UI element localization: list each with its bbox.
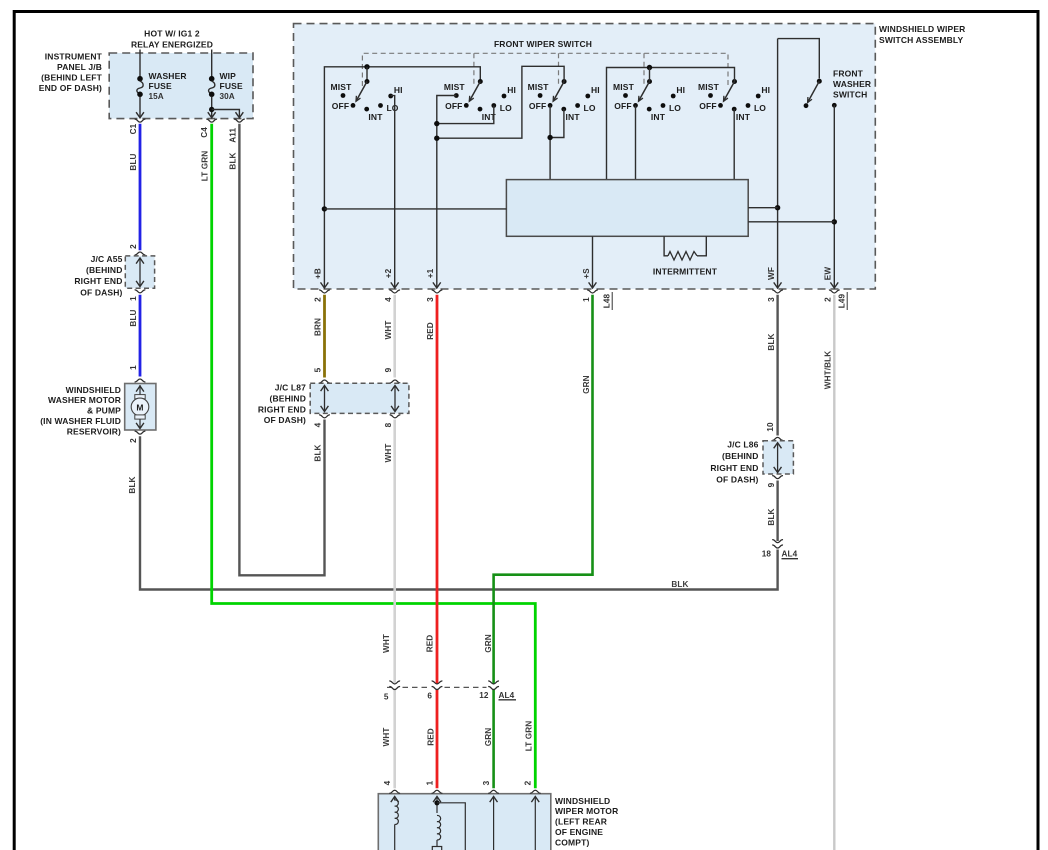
svg-text:WHT/BLK: WHT/BLK [824, 351, 833, 389]
svg-text:BLK: BLK [229, 152, 238, 169]
svg-text:+B: +B [314, 268, 323, 279]
svg-text:FUSE: FUSE [149, 81, 172, 91]
svg-text:6: 6 [427, 692, 432, 701]
svg-text:3: 3 [767, 297, 776, 302]
wire BLU A55 to washer motor [129, 295, 140, 377]
wire RED +1 to wiper motor pin 1 [426, 295, 438, 789]
svg-text:RIGHT END: RIGHT END [710, 463, 758, 473]
svg-text:INSTRUMENT: INSTRUMENT [45, 52, 103, 62]
svg-text:4: 4 [384, 297, 393, 302]
wire WHT J/C L87 pin 8 to AL4 pin 5 [382, 420, 395, 789]
wire module to common bus [324, 208, 506, 210]
wiper motor internal wire junction to brush [437, 803, 465, 850]
wiper motor pin 3 [482, 780, 499, 850]
svg-text:10: 10 [766, 422, 775, 432]
wire BLK washer motor to ground bus [128, 436, 778, 589]
svg-text:FRONT: FRONT [833, 68, 864, 78]
svg-text:8: 8 [384, 422, 393, 427]
svg-text:L49: L49 [838, 293, 847, 308]
svg-text:BLK: BLK [767, 508, 776, 525]
instrument panel J/B fuse box [39, 52, 253, 119]
svg-text:OF DASH): OF DASH) [80, 287, 122, 297]
connector A11 [229, 119, 245, 143]
label HOT W/ IG1 2 RELAY ENERGIZED [131, 29, 213, 50]
connectors below assembly with pin numbers [314, 290, 840, 302]
svg-text:RED: RED [426, 322, 435, 340]
svg-text:4: 4 [314, 422, 323, 427]
connector C1 [129, 119, 146, 134]
wiper switch common bus wire +B [321, 64, 481, 288]
svg-text:1: 1 [129, 365, 138, 370]
svg-text:+1: +1 [426, 268, 435, 278]
svg-text:BLK: BLK [314, 444, 323, 461]
svg-text:BLU: BLU [129, 153, 138, 170]
svg-text:C4: C4 [200, 127, 209, 138]
svg-text:BRN: BRN [314, 318, 323, 336]
svg-text:SWITCH ASSEMBLY: SWITCH ASSEMBLY [879, 35, 963, 45]
wire WHT +2 to J/C L87 pin 9 [384, 295, 395, 378]
svg-text:AL4: AL4 [782, 550, 798, 559]
wire switch3 OFF INT net to module [547, 105, 564, 179]
svg-text:(BEHIND: (BEHIND [722, 451, 758, 461]
svg-text:WIP: WIP [220, 71, 237, 81]
svg-text:& PUMP: & PUMP [87, 406, 121, 416]
connector AL4 pin 18 [762, 540, 798, 559]
svg-text:OF DASH): OF DASH) [264, 415, 306, 425]
svg-text:3: 3 [426, 297, 435, 302]
svg-text:5: 5 [384, 693, 389, 702]
svg-text:FRONT WIPER SWITCH: FRONT WIPER SWITCH [494, 39, 592, 49]
svg-text:HOT W/ IG1 2: HOT W/ IG1 2 [144, 29, 200, 39]
svg-text:J/C L87: J/C L87 [275, 383, 306, 393]
svg-text:PANEL J/B: PANEL J/B [57, 62, 102, 72]
svg-text:RIGHT END: RIGHT END [258, 404, 306, 414]
svg-text:RELAY ENERGIZED: RELAY ENERGIZED [131, 40, 213, 50]
svg-text:WHT: WHT [384, 444, 393, 463]
svg-text:OF ENGINE: OF ENGINE [555, 827, 603, 837]
svg-text:1: 1 [425, 780, 434, 785]
windshield wiper motor box [378, 794, 618, 850]
svg-text:30A: 30A [220, 92, 235, 101]
wire WF front washer switch to pin [774, 39, 782, 288]
svg-text:J/C A55: J/C A55 [91, 254, 123, 264]
svg-text:COMPT): COMPT) [555, 838, 589, 848]
wire switch2 net to switch3 pivot line B [434, 66, 564, 141]
svg-text:(IN WASHER FLUID: (IN WASHER FLUID [40, 416, 121, 426]
connector label L49 [838, 292, 848, 310]
front wiper switch gang 2 [444, 79, 516, 122]
wire module to EW [748, 221, 834, 223]
svg-text:WF: WF [767, 267, 776, 280]
wire BLK WF to J/C L86 pin 10 [766, 295, 778, 436]
svg-text:WINDSHIELD: WINDSHIELD [555, 796, 610, 806]
svg-text:15A: 15A [149, 92, 164, 101]
connector label L48 [603, 292, 613, 310]
wire BLU C1 to J/C A55 [129, 124, 140, 250]
wire BLK J/C L86 pin 9 to AL4 pin 18 [767, 481, 778, 542]
wire pivot stub switch 1 [366, 67, 368, 82]
wiper control module [506, 180, 748, 237]
svg-text:END OF DASH): END OF DASH) [39, 83, 102, 93]
svg-text:(BEHIND: (BEHIND [86, 265, 122, 275]
svg-text:WASHER MOTOR: WASHER MOTOR [48, 395, 121, 405]
wire module to WF [748, 207, 777, 209]
svg-text:GRN: GRN [582, 375, 591, 394]
wire LT GRN C4 to wiper motor pin 2 [201, 124, 536, 789]
wire switch4 switch5 pivot line C to module [607, 65, 735, 180]
svg-text:5: 5 [314, 367, 323, 372]
wire BLK A11 to J/C L87 pin 4 [229, 124, 325, 576]
svg-text:FUSE: FUSE [220, 81, 243, 91]
svg-text:BLK: BLK [767, 333, 776, 350]
junction connector J/C L87 [258, 380, 409, 427]
svg-text:2: 2 [314, 297, 323, 302]
svg-text:RED: RED [427, 728, 436, 746]
svg-text:BLK: BLK [128, 476, 137, 493]
connector AL4 row pins 5 6 12 [384, 681, 516, 702]
svg-text:WIPER MOTOR: WIPER MOTOR [555, 806, 618, 816]
svg-text:C1: C1 [129, 123, 138, 134]
svg-text:A11: A11 [229, 128, 238, 143]
svg-text:18: 18 [762, 550, 772, 559]
wire switch5 INT to module [733, 109, 735, 180]
front wiper switch gang dashed line [362, 39, 728, 86]
wire module to +S [592, 236, 594, 287]
svg-text:WINDSHIELD: WINDSHIELD [66, 385, 121, 395]
svg-text:2: 2 [129, 438, 138, 443]
wiper motor field coil pin 4 [395, 800, 399, 850]
washer motor M windshield washer motor and pump [40, 379, 156, 443]
wire EW washer switch contact to pin [830, 105, 838, 288]
svg-text:(BEHIND: (BEHIND [270, 393, 306, 403]
svg-text:(LEFT REAR: (LEFT REAR [555, 817, 607, 827]
svg-text:1: 1 [582, 297, 591, 302]
svg-text:WHT: WHT [382, 634, 391, 653]
wiper motor resistor [432, 847, 441, 850]
svg-text:RIGHT END: RIGHT END [74, 276, 122, 286]
svg-text:J/C L86: J/C L86 [727, 440, 758, 450]
svg-text:BLU: BLU [129, 309, 138, 326]
svg-text:3: 3 [482, 780, 491, 785]
svg-text:(BEHIND LEFT: (BEHIND LEFT [41, 73, 102, 83]
svg-text:WHT: WHT [384, 321, 393, 340]
wire switch1 HI to +2 [391, 96, 395, 287]
svg-text:WASHER: WASHER [833, 79, 871, 89]
front wiper switch gang 4 [613, 79, 685, 122]
windshield wiper switch assembly box [294, 24, 966, 289]
svg-text:WASHER: WASHER [149, 71, 187, 81]
svg-text:4: 4 [383, 780, 392, 785]
WIP fuse 30A [208, 50, 243, 118]
junction connector J/C L86 [710, 437, 793, 487]
svg-text:RED: RED [426, 635, 435, 653]
wire GRN +S to wiper motor pin 3 [484, 295, 593, 789]
wire switch4 OFF to module [635, 105, 637, 179]
intermittent resistor [653, 236, 718, 276]
junction connector J/C A55 [74, 252, 154, 301]
svg-text:2: 2 [824, 297, 833, 302]
svg-text:WHT: WHT [382, 728, 391, 747]
svg-text:EW: EW [824, 267, 833, 281]
svg-text:GRN: GRN [484, 728, 493, 747]
svg-text:OF DASH): OF DASH) [716, 475, 758, 485]
svg-text:L48: L48 [603, 293, 612, 308]
wire BRN +B to J/C L87 pin 5 [314, 295, 325, 378]
svg-text:9: 9 [384, 367, 393, 372]
svg-text:9: 9 [767, 482, 776, 487]
washer fuse 15A [136, 50, 187, 118]
svg-text:2: 2 [524, 780, 533, 785]
svg-text:M: M [136, 402, 143, 412]
svg-text:2: 2 [129, 244, 138, 249]
front washer switch [778, 39, 872, 109]
front wiper switch gang 5 [698, 79, 770, 122]
assembly pin labels [314, 267, 833, 281]
wire switch2 MIST LO net to +1 [433, 96, 494, 289]
svg-text:SWITCH: SWITCH [833, 89, 867, 99]
svg-text:INTERMITTENT: INTERMITTENT [653, 267, 718, 277]
svg-text:GRN: GRN [484, 634, 493, 653]
svg-text:+S: +S [582, 268, 591, 279]
wiper motor pin 1 [425, 780, 442, 813]
svg-text:RESERVOIR): RESERVOIR) [67, 426, 121, 436]
wiper motor pin 4 [383, 780, 400, 802]
front wiper switch gang 3 [528, 79, 600, 122]
wire WIP fuse branch to A11 [209, 107, 243, 118]
connector C4 [200, 119, 217, 138]
wiper motor pin 2 [524, 780, 541, 850]
wiper motor armature coil pin 1 [437, 815, 441, 846]
front wiper switch gang 1 [331, 79, 403, 122]
svg-text:LT GRN: LT GRN [201, 151, 210, 181]
svg-text:12: 12 [479, 691, 489, 700]
svg-text:BLK: BLK [671, 580, 688, 589]
svg-text:AL4: AL4 [499, 691, 515, 700]
svg-text:LT GRN: LT GRN [525, 721, 534, 751]
wire WHT/BLK EW down [824, 295, 835, 850]
svg-text:1: 1 [129, 296, 138, 301]
svg-text:WINDSHIELD WIPER: WINDSHIELD WIPER [879, 24, 965, 34]
svg-text:+2: +2 [384, 268, 393, 278]
